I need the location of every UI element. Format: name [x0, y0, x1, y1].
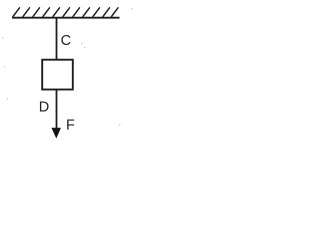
ceiling hatch marks: [13, 8, 118, 17]
svg-text:F: F: [66, 118, 75, 134]
scan speckles: [2, 8, 132, 125]
ceiling line: [12, 17, 120, 19]
block (square box): [42, 60, 73, 90]
wire string C (ceiling to block): [56, 18, 58, 60]
svg-text:D: D: [39, 100, 49, 116]
force arrow F head: [52, 128, 61, 138]
svg-text:C: C: [61, 33, 71, 49]
wire string D (block to arrow): [56, 90, 58, 132]
